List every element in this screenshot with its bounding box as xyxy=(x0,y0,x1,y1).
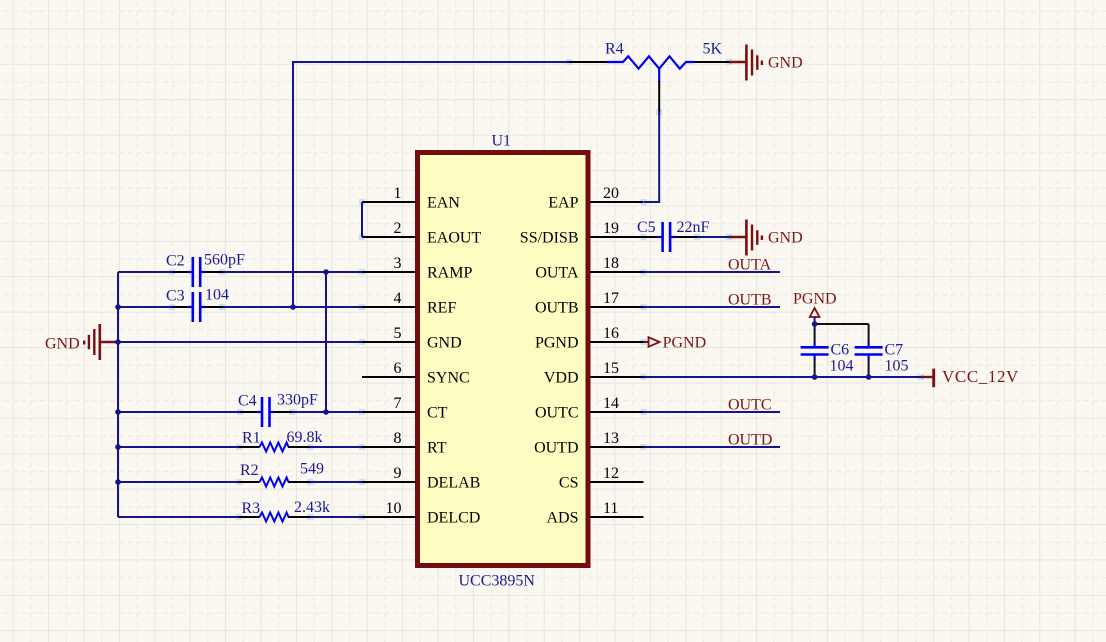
pin 9 DELAB xyxy=(362,465,480,492)
pin 8 RT xyxy=(362,430,447,457)
svg-text:14: 14 xyxy=(603,395,619,412)
svg-text:C5: C5 xyxy=(637,219,656,236)
ground GND top right xyxy=(729,45,803,81)
IC U1 UCC3895N body xyxy=(418,153,589,566)
svg-text:UCC3895N: UCC3895N xyxy=(459,573,536,590)
svg-text:13: 13 xyxy=(603,430,619,447)
svg-text:19: 19 xyxy=(603,220,619,237)
resistor R1 xyxy=(239,429,323,452)
wire left bus vertical xyxy=(117,272,119,517)
svg-text:C2: C2 xyxy=(166,253,185,270)
wire CT row xyxy=(118,411,241,413)
ground GND left xyxy=(45,324,117,360)
capacitor C3 xyxy=(166,287,229,323)
junction node PGND cap rail xyxy=(812,321,818,327)
pin 3 RAMP xyxy=(362,255,472,282)
pin 5 GND xyxy=(362,325,462,352)
wire REF row xyxy=(118,306,173,308)
capacitor C6 xyxy=(801,324,854,377)
svg-text:EAP: EAP xyxy=(548,195,578,212)
pin 6 SYNC xyxy=(362,360,470,387)
junction node DELAB bus xyxy=(115,479,121,485)
pin 18 OUTA xyxy=(535,255,643,282)
power port PGND triangle xyxy=(793,291,837,325)
wire VDD to VCC_12V xyxy=(644,376,922,378)
svg-text:GND: GND xyxy=(427,335,462,352)
wire RAMP-CT vertical xyxy=(325,272,327,412)
svg-text:OUTC: OUTC xyxy=(535,405,579,422)
junction node C6 VDD xyxy=(812,374,818,380)
pin 12 CS xyxy=(559,465,644,492)
pin 11 ADS xyxy=(546,500,643,527)
wire top net from RAMP/REF to R4 xyxy=(293,62,569,307)
svg-text:4: 4 xyxy=(394,290,402,307)
resistor R2 xyxy=(239,461,324,487)
svg-text:16: 16 xyxy=(603,325,619,342)
svg-text:69.8k: 69.8k xyxy=(287,429,323,446)
svg-text:105: 105 xyxy=(885,358,909,375)
svg-text:VDD: VDD xyxy=(544,370,579,387)
pin 2 EAOUT xyxy=(362,220,481,247)
svg-text:5K: 5K xyxy=(703,41,723,58)
svg-text:C6: C6 xyxy=(831,342,850,359)
svg-text:OUTB: OUTB xyxy=(535,300,579,317)
svg-text:SYNC: SYNC xyxy=(427,370,470,387)
wire OUTD xyxy=(644,446,781,448)
wire OUTC xyxy=(644,411,781,413)
svg-text:RT: RT xyxy=(427,440,447,457)
svg-text:DELCD: DELCD xyxy=(427,510,480,527)
svg-text:104: 104 xyxy=(830,358,854,375)
svg-text:20: 20 xyxy=(603,185,619,202)
svg-text:15: 15 xyxy=(603,360,619,377)
pin 14 OUTC xyxy=(535,395,644,422)
svg-text:12: 12 xyxy=(603,465,619,482)
no-ERC arrow PGND at pin 16 xyxy=(644,335,707,352)
svg-text:EAN: EAN xyxy=(427,195,460,212)
svg-text:R3: R3 xyxy=(242,500,261,517)
junction node RT bus xyxy=(115,444,121,450)
svg-text:R1: R1 xyxy=(242,430,261,447)
svg-text:OUTB: OUTB xyxy=(728,292,772,309)
svg-text:ADS: ADS xyxy=(546,510,578,527)
junction node REF drop xyxy=(290,304,296,310)
svg-text:RAMP: RAMP xyxy=(427,265,472,282)
pin 7 CT xyxy=(362,395,448,422)
svg-text:22nF: 22nF xyxy=(677,219,710,236)
svg-text:11: 11 xyxy=(603,500,618,517)
svg-text:DELAB: DELAB xyxy=(427,475,480,492)
pin 17 OUTB xyxy=(535,290,644,317)
pin 20 EAP xyxy=(548,185,643,212)
wire OUTB xyxy=(644,306,781,308)
junction node GND bus xyxy=(115,339,121,345)
svg-text:REF: REF xyxy=(427,300,456,317)
wire C5 to ground xyxy=(697,236,729,238)
svg-text:9: 9 xyxy=(394,465,402,482)
svg-text:7: 7 xyxy=(394,395,402,412)
power port VCC_12V xyxy=(921,367,1019,387)
svg-text:10: 10 xyxy=(386,500,402,517)
junction node REF bus xyxy=(115,304,121,310)
ground GND at C5 xyxy=(729,220,803,256)
wire DELCD row xyxy=(118,516,240,518)
svg-text:R2: R2 xyxy=(240,462,259,479)
wire RT row xyxy=(118,446,240,448)
junction node CT right xyxy=(323,409,329,415)
capacitor C5 xyxy=(637,219,710,252)
pin 1 EAN xyxy=(362,185,460,212)
junction node RAMP top xyxy=(323,269,329,275)
capacitor C2 xyxy=(166,252,245,288)
svg-text:PGND: PGND xyxy=(535,335,579,352)
junction node C7 VDD xyxy=(866,374,872,380)
wire R4 tap to pin 20 xyxy=(644,112,659,203)
svg-text:549: 549 xyxy=(300,461,324,478)
svg-text:OUTA: OUTA xyxy=(728,257,772,274)
svg-text:C7: C7 xyxy=(885,342,904,359)
svg-text:560pF: 560pF xyxy=(204,252,245,269)
svg-text:C4: C4 xyxy=(238,393,257,410)
pin 10 DELCD xyxy=(362,500,480,527)
svg-text:3: 3 xyxy=(394,255,402,272)
wire OUTA xyxy=(644,271,781,273)
svg-text:OUTD: OUTD xyxy=(534,440,578,457)
wire C6/C7 top rail xyxy=(815,323,869,325)
capacitor C4 xyxy=(238,392,318,428)
svg-text:18: 18 xyxy=(603,255,619,272)
svg-text:2.43k: 2.43k xyxy=(294,499,330,516)
svg-text:PGND: PGND xyxy=(663,335,707,352)
wire DELAB row xyxy=(118,481,240,483)
svg-text:104: 104 xyxy=(205,287,229,304)
svg-text:GND: GND xyxy=(768,230,803,247)
svg-text:CT: CT xyxy=(427,405,448,422)
svg-text:CS: CS xyxy=(559,475,579,492)
svg-text:8: 8 xyxy=(394,430,402,447)
svg-text:GND: GND xyxy=(45,336,80,353)
svg-text:330pF: 330pF xyxy=(277,392,318,409)
pin connection markers xyxy=(169,59,924,520)
svg-text:R4: R4 xyxy=(605,41,624,58)
svg-text:2: 2 xyxy=(394,220,402,237)
svg-text:SS/DISB: SS/DISB xyxy=(520,230,579,247)
svg-text:C3: C3 xyxy=(166,288,185,305)
svg-text:5: 5 xyxy=(394,325,402,342)
svg-text:OUTA: OUTA xyxy=(535,265,579,282)
svg-text:U1: U1 xyxy=(492,133,512,150)
pin 13 OUTD xyxy=(534,430,643,457)
pin 16 PGND xyxy=(535,325,644,352)
svg-text:6: 6 xyxy=(394,360,402,377)
svg-text:GND: GND xyxy=(768,55,803,72)
pin 4 REF xyxy=(362,290,456,317)
capacitor C7 xyxy=(855,324,909,377)
wire pin1 to pin2 loop xyxy=(361,202,363,237)
svg-text:EAOUT: EAOUT xyxy=(427,230,481,247)
svg-text:1: 1 xyxy=(394,185,402,202)
wire GND row to pin 5 xyxy=(117,341,362,343)
resistor R4 xyxy=(569,41,729,113)
wire RAMP row xyxy=(118,271,173,273)
svg-text:OUTD: OUTD xyxy=(728,432,772,449)
svg-text:OUTC: OUTC xyxy=(728,397,772,414)
svg-text:VCC_12V: VCC_12V xyxy=(942,367,1019,386)
junction node CT bus xyxy=(115,409,121,415)
svg-text:PGND: PGND xyxy=(793,291,837,308)
resistor R3 xyxy=(239,499,330,522)
pin 15 VDD xyxy=(544,360,644,387)
pin 19 SS/DISB xyxy=(520,220,644,247)
svg-text:17: 17 xyxy=(603,290,619,307)
